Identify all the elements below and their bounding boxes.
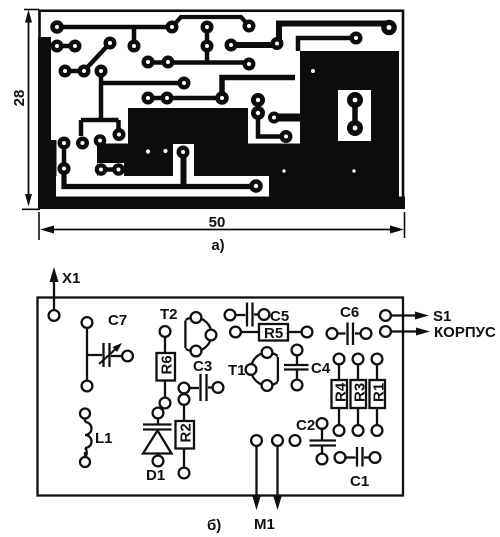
pad (251, 93, 265, 107)
clearance channel bottom (56, 176, 269, 197)
pad (95, 163, 108, 176)
clearance slot around pads 101/118 (98, 163, 125, 177)
pad (51, 40, 64, 53)
wire top horizontal (57, 25, 172, 30)
pad (347, 92, 363, 108)
svg-text:50: 50 (209, 214, 226, 231)
pad (201, 21, 214, 34)
copper pour right blob (300, 51, 399, 197)
resistors R4 R3 R1 (332, 354, 350, 436)
svg-text:C2: C2 (296, 417, 315, 434)
svg-text:28: 28 (11, 90, 28, 107)
wire pad pair y71 (65, 69, 84, 74)
drill hole in pour (163, 149, 167, 153)
connector X1 arrow (53, 280, 55, 310)
svg-text:L1: L1 (95, 430, 113, 447)
pad (347, 120, 363, 136)
svg-text:R3: R3 (352, 383, 369, 402)
wire diagonal (84, 43, 110, 71)
resistor R2 (176, 394, 195, 478)
svg-text:T2: T2 (160, 306, 178, 323)
capacitor C7 (82, 317, 133, 391)
copper pour left bar (38, 37, 57, 198)
pad (243, 20, 256, 33)
wire step-up elbow (172, 17, 249, 27)
dimension 28 (22, 10, 40, 210)
wire notch stub (274, 114, 300, 122)
wire long bottom trace (64, 169, 256, 187)
svg-text:R6: R6 (159, 355, 176, 374)
pad (201, 40, 214, 53)
inductor L1 (80, 409, 92, 468)
drill hole in pour (282, 169, 285, 172)
svg-text:C5: C5 (270, 308, 289, 325)
resistor R5 (230, 324, 312, 342)
wire to pad 356,38 (298, 38, 356, 51)
pad (249, 179, 263, 193)
transistor T1 (246, 347, 289, 391)
svg-text:M1: M1 (254, 516, 275, 533)
wire L-shape x101 (81, 71, 119, 136)
wire notch pads vertical (258, 100, 286, 137)
switch S1 arrow (380, 310, 429, 321)
wire slot pads (352, 100, 358, 128)
capacitor C3 (179, 374, 224, 401)
wire drop to pad (132, 27, 137, 46)
pad (76, 137, 89, 150)
svg-text:а): а) (211, 237, 224, 254)
pad (162, 56, 175, 69)
wire pad 183 drop to long trace (181, 152, 187, 187)
svg-text:C4: C4 (311, 360, 331, 377)
pads with holes (50, 20, 397, 193)
wire from pour to pad pair (50, 44, 75, 49)
board outline (38, 298, 404, 496)
wire y83 branch (101, 81, 184, 86)
svg-text:D1: D1 (146, 467, 165, 484)
drill hole in pour (352, 169, 355, 172)
pad (112, 163, 125, 176)
copper pour bottom band (38, 197, 405, 210)
clearance slot around pad 183 (173, 144, 194, 176)
pad (113, 128, 126, 141)
pad (69, 40, 82, 53)
svg-text:S1: S1 (433, 308, 451, 325)
svg-text:КОРПУС: КОРПУС (434, 324, 496, 341)
svg-text:C1: C1 (350, 473, 369, 490)
chassis arrow (380, 326, 430, 337)
pad (178, 77, 191, 90)
diode D1 (143, 408, 172, 467)
pad (95, 65, 108, 78)
pad (350, 32, 363, 45)
pad (177, 146, 190, 159)
wire elbow to blob (222, 78, 295, 99)
pad (166, 21, 179, 34)
pad (78, 65, 91, 78)
capacitor C2 (310, 418, 337, 464)
pad (280, 130, 293, 143)
pad (243, 58, 256, 71)
pad (271, 37, 284, 50)
board frame (40, 11, 404, 208)
transistor T2 (174, 312, 216, 356)
svg-text:б): б) (207, 517, 221, 534)
wire pad pair y62 (148, 63, 249, 65)
pad (50, 20, 64, 34)
pad (104, 37, 117, 50)
pad (225, 39, 238, 52)
capacitor C1 (335, 447, 381, 467)
pad (94, 134, 107, 147)
svg-text:R2: R2 (178, 423, 195, 442)
svg-text:X1: X1 (62, 270, 80, 287)
capacitor C5 (225, 303, 270, 327)
pad (161, 92, 174, 105)
copper pour middle blob (97, 108, 300, 197)
svg-text:R4: R4 (333, 382, 350, 402)
dimension 50 (39, 212, 405, 240)
svg-text:T1: T1 (228, 362, 246, 379)
drill hole in pour (146, 149, 150, 153)
pad (268, 112, 280, 124)
clearance slot in right blob (338, 90, 371, 141)
clearance notch with pads (248, 81, 300, 144)
svg-text:C6: C6 (340, 304, 359, 321)
pad (251, 106, 265, 120)
wire pads 65 column (62, 143, 67, 169)
capacitor C6 (327, 323, 372, 346)
capacitor C4 (284, 345, 309, 391)
svg-text:R5: R5 (264, 325, 283, 342)
pad (58, 162, 71, 175)
wire thick top-right (231, 24, 389, 46)
motor pads M1 (251, 435, 300, 510)
wire pad column (205, 27, 210, 63)
pad (128, 40, 141, 53)
pad X1 (49, 310, 60, 321)
svg-text:C7: C7 (108, 312, 127, 329)
pad (142, 92, 155, 105)
pad (381, 20, 397, 36)
pad (215, 91, 229, 105)
wire row y99 (148, 96, 222, 101)
svg-text:R1: R1 (371, 383, 388, 402)
svg-text:C3: C3 (193, 358, 212, 375)
pad (59, 65, 72, 78)
drill hole in pour (311, 69, 315, 73)
resistor R6 (157, 326, 176, 408)
pad (142, 56, 155, 69)
pad (58, 137, 71, 150)
wire slot pad pair (101, 167, 119, 172)
